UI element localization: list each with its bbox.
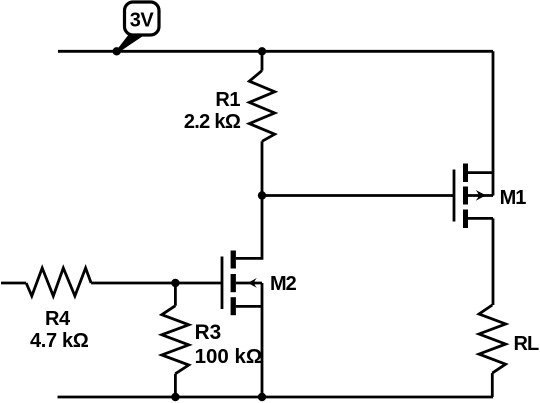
wire R4 left lead bbox=[1, 282, 26, 285]
svg-text:4.7 kΩ: 4.7 kΩ bbox=[30, 330, 89, 352]
wire M2 source down to ground bbox=[236, 283, 262, 397]
wire M1 bulk line bbox=[468, 194, 493, 197]
junction dot bottom rail / R3 bbox=[171, 393, 179, 401]
transistor M1 gate line bbox=[453, 170, 456, 222]
svg-text:R3: R3 bbox=[195, 321, 222, 344]
wire node down to M2 drain bbox=[236, 196, 262, 259]
junction node R1 / M1 gate / M2 drain bbox=[258, 191, 266, 199]
wire R3 bottom lead bbox=[174, 374, 177, 397]
wire bottom rail ground bbox=[58, 396, 494, 399]
resistor RL bbox=[479, 305, 506, 373]
resistor R4 bbox=[26, 268, 91, 296]
svg-text:2.2 kΩ: 2.2 kΩ bbox=[184, 111, 241, 133]
3V callout box bbox=[125, 2, 160, 35]
svg-text:RL: RL bbox=[514, 333, 539, 355]
svg-text:100 kΩ: 100 kΩ bbox=[195, 345, 263, 368]
wire R3 top lead bbox=[174, 283, 177, 306]
junction dot top rail at 3V tap bbox=[113, 47, 121, 55]
svg-text:M2: M2 bbox=[270, 273, 297, 295]
resistor R1 bbox=[249, 71, 274, 142]
svg-text:R4: R4 bbox=[45, 308, 71, 330]
wire node to M2 gate bbox=[175, 282, 222, 285]
wire R4 to node bbox=[91, 282, 175, 285]
transistor M2 bulk arrow bbox=[248, 278, 257, 288]
wire R1 bottom lead to node bbox=[261, 141, 264, 195]
wire R1 top lead bbox=[261, 51, 264, 70]
wire RL bottom lead bbox=[491, 373, 494, 397]
transistor M2 channel bars bbox=[231, 251, 236, 269]
resistor R3 bbox=[162, 306, 189, 374]
transistor M2 gate line bbox=[221, 257, 224, 310]
transistor M1 channel bars bbox=[463, 164, 468, 183]
svg-text:3V: 3V bbox=[130, 10, 155, 32]
3V callout tail bbox=[115, 34, 147, 53]
svg-text:M1: M1 bbox=[500, 187, 527, 209]
wire M1 source down to RL bbox=[466, 218, 493, 305]
transistor M1 bulk arrow bbox=[476, 190, 486, 201]
wire node to M1 gate bbox=[262, 194, 454, 197]
junction dot bottom rail / M2 source bbox=[258, 393, 266, 401]
wire M1 drain to top rail bbox=[466, 51, 493, 195]
junction node R4 / R3 / M2 gate bbox=[171, 279, 179, 287]
svg-text:R1: R1 bbox=[215, 89, 240, 111]
wire top rail 3V bbox=[58, 50, 493, 53]
junction dot top rail / R1 bbox=[258, 47, 266, 55]
wire M2 bulk line bbox=[236, 282, 262, 285]
